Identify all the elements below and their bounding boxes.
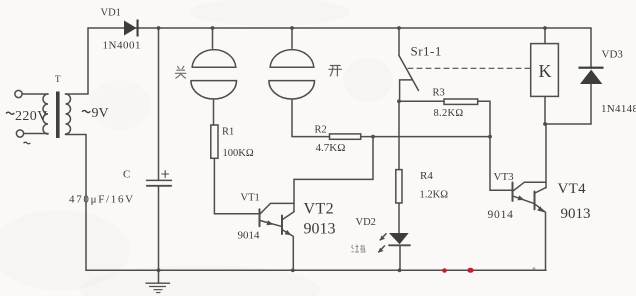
svg-text:VT2: VT2 xyxy=(304,201,335,218)
svg-text:220V: 220V xyxy=(15,109,48,124)
svg-text:VD2: VD2 xyxy=(356,217,376,228)
svg-text:VT3: VT3 xyxy=(494,171,515,183)
svg-text:VD3: VD3 xyxy=(602,49,624,61)
svg-text:470μF/16V: 470μF/16V xyxy=(69,194,135,206)
svg-text:K: K xyxy=(539,61,552,81)
svg-text:VD1: VD1 xyxy=(101,8,121,19)
svg-text:VT1: VT1 xyxy=(241,193,260,204)
svg-text:T: T xyxy=(55,74,61,84)
svg-text:100KΩ: 100KΩ xyxy=(223,148,254,159)
svg-text:VT4: VT4 xyxy=(558,181,587,197)
svg-text:R2: R2 xyxy=(315,125,327,136)
svg-text:9013: 9013 xyxy=(304,221,336,238)
svg-text:9014: 9014 xyxy=(488,209,514,221)
svg-text:Sr1-1: Sr1-1 xyxy=(411,44,442,59)
svg-text:1.2KΩ: 1.2KΩ xyxy=(420,190,449,201)
svg-text:8.2KΩ: 8.2KΩ xyxy=(434,108,464,119)
svg-text:9V: 9V xyxy=(92,106,109,121)
svg-text:R4: R4 xyxy=(420,170,433,182)
svg-text:9014: 9014 xyxy=(238,230,261,242)
svg-text:R1: R1 xyxy=(222,127,234,138)
svg-text:C: C xyxy=(123,169,130,181)
svg-text:1N4148: 1N4148 xyxy=(601,103,636,115)
svg-text:R3: R3 xyxy=(433,88,445,99)
svg-text:1N4001: 1N4001 xyxy=(103,40,141,52)
svg-text:4.7KΩ: 4.7KΩ xyxy=(316,142,346,154)
svg-text:9013: 9013 xyxy=(561,206,591,222)
